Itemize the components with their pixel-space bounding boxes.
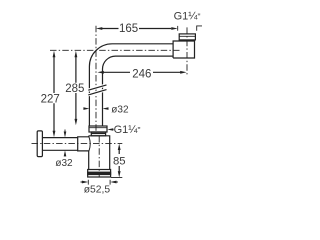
wire: tail pipe centerline vertical dash-dot <box>95 26 97 133</box>
collar-body intersection arc <box>89 137 90 151</box>
dimension 285 line <box>75 51 78 126</box>
trap bottom cap <box>88 170 111 178</box>
leader for lower G1 1/4 label <box>107 128 113 131</box>
wall flange <box>37 131 42 157</box>
svg-text:246: 246 <box>132 69 151 81</box>
dimension phi52.5 ticks and arrows <box>81 180 118 185</box>
fitting U1: cap nut <box>179 34 195 40</box>
svg-text:G1¼": G1¼" <box>174 10 201 22</box>
pipe: upper bent tube outer contour <box>89 44 173 126</box>
svg-text:85: 85 <box>113 155 126 167</box>
fitting U1: elbow body top right <box>173 40 194 58</box>
dimension 165 line <box>96 26 178 31</box>
svg-text:165: 165 <box>119 23 138 35</box>
dimension 246 line <box>97 71 186 74</box>
side inlet collar <box>78 137 90 151</box>
wire: side pipe centerline horizontal dash-dot <box>32 143 123 145</box>
extension tick for 165 at cap left edge <box>177 26 179 31</box>
dimension 227 line <box>53 51 56 137</box>
leader for top G1 1/4 label <box>197 26 202 31</box>
trap body cylinder <box>89 136 110 170</box>
svg-text:ø32: ø32 <box>111 104 129 115</box>
dimension 85 line <box>111 144 122 178</box>
break symbol on tail pipe <box>88 85 106 90</box>
wire: upper pipe centerline horizontal dash-dot <box>50 49 180 51</box>
extension line at trap bottom <box>111 177 122 179</box>
svg-text:ø52,5: ø52,5 <box>84 184 111 195</box>
pipe: upper bent tube inner contour <box>103 56 174 126</box>
side pipe to wall <box>42 138 77 151</box>
svg-text:285: 285 <box>65 83 84 95</box>
trap inlet nut <box>89 126 107 132</box>
wire: trap body centerline vertical dash-dot <box>98 136 100 177</box>
dimension phi32 lower arrows <box>64 130 67 157</box>
svg-text:227: 227 <box>41 94 60 106</box>
svg-text:G1¼": G1¼" <box>114 124 141 136</box>
trap inlet ring <box>91 132 105 136</box>
dimension phi32 upper arrows <box>83 107 108 110</box>
wire: fitting centerline vertical dash-dot <box>186 27 188 74</box>
svg-text:ø32: ø32 <box>55 158 73 169</box>
